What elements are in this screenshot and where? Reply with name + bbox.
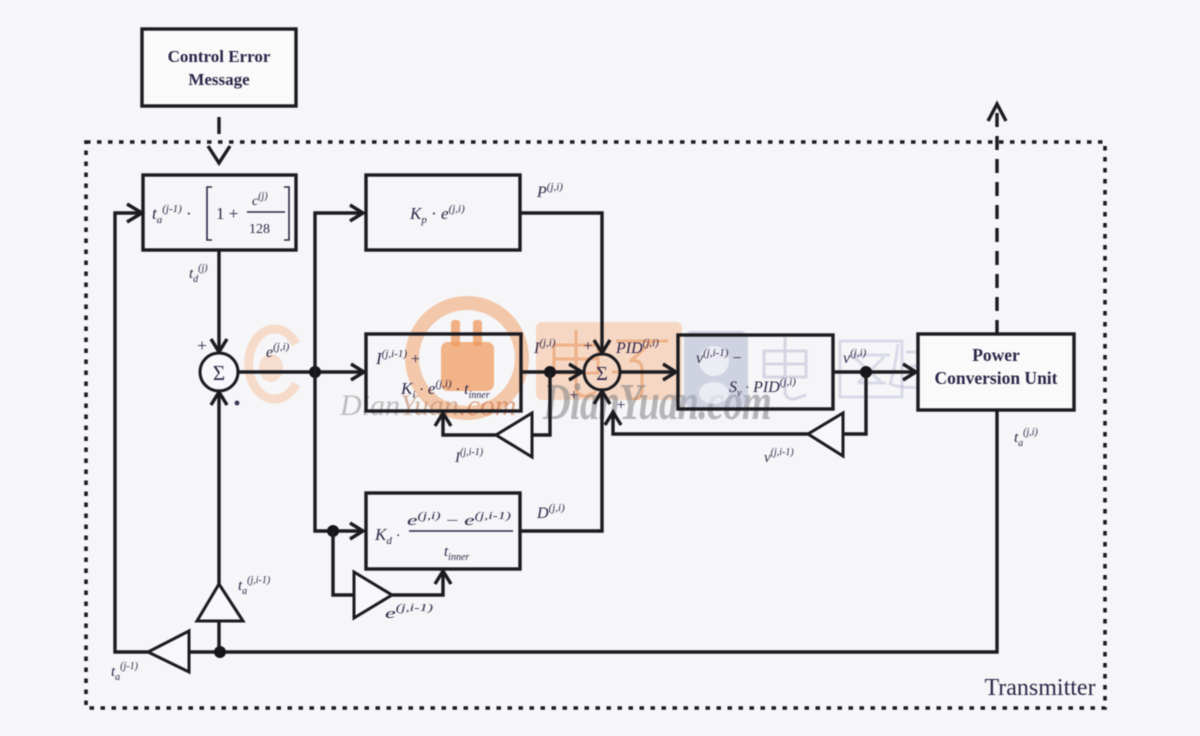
wire branch up to Kp block: [315, 205, 363, 372]
svg-text:Σ: Σ: [596, 363, 608, 385]
junction node on e line: [309, 366, 321, 378]
block Ki integral: [366, 334, 521, 411]
wire v feedback through delay Z4: [605, 372, 866, 434]
watermark faint lavender glyphs: [764, 337, 806, 399]
delay triangle Z2: [496, 413, 532, 457]
wire I feedback through delay Z2: [435, 372, 550, 435]
svg-text:128: 128: [249, 222, 270, 237]
wire dashed arrow from Control Error Message into transmitter: [208, 117, 230, 163]
svg-text:Power: Power: [972, 345, 1020, 365]
wire S1 bottom input from delay Z1: [211, 392, 227, 584]
wire branch down to Kd block: [315, 372, 363, 539]
delay triangle Z4: [808, 413, 843, 456]
box Power Conversion Unit: [918, 334, 1074, 410]
wire dashed RF output arrow from PCU: [988, 104, 1006, 334]
box Control Error Message: [142, 29, 296, 106]
summer S2: [584, 354, 620, 390]
svg-text:Control Error: Control Error: [168, 47, 271, 66]
watermark big orange ring logo with plug: [412, 303, 522, 413]
svg-text:+: +: [616, 397, 625, 414]
watermark orange wash with glyphs behind sum2: [536, 322, 682, 400]
wire junction up into delay Z1: [217, 621, 220, 652]
block SV voltage update: [678, 335, 833, 409]
delay triangle Z1: [197, 584, 243, 621]
wire SV output to PCU: [833, 364, 916, 380]
junction node on v output: [860, 366, 872, 378]
summer S1: [200, 353, 238, 391]
transmitter dashed border: [86, 142, 1105, 708]
label minus dot at S1 bottom: [235, 401, 240, 406]
svg-text:Conversion Unit: Conversion Unit: [935, 368, 1058, 388]
wire F1 to summer S1: [211, 250, 227, 352]
block F1 update rule: [143, 175, 296, 250]
svg-text:1 +: 1 +: [216, 204, 238, 223]
junction node on Kd input: [327, 525, 339, 537]
svg-text:+: +: [197, 336, 207, 355]
svg-text:+: +: [583, 338, 592, 355]
junction node on return line: [214, 646, 226, 658]
wire Kd output to summer S2: [520, 391, 610, 531]
wire PCU output down and return line: [189, 410, 997, 652]
svg-text:Σ: Σ: [213, 361, 225, 385]
watermark lavender logo square in SV block: [684, 331, 748, 408]
block Kd derivative: [366, 493, 520, 569]
wire Z5 output up to block F1: [115, 204, 148, 652]
junction node on I output: [544, 366, 556, 378]
svg-text:Message: Message: [188, 70, 250, 89]
wire Kp output to summer S2: [520, 213, 610, 353]
delay triangle Z5: [148, 631, 189, 672]
block F1 formula: [152, 187, 289, 240]
wire S2 output to SV block: [620, 364, 676, 380]
watermark small orange ring logo: [249, 329, 296, 399]
wire I output to summer S2: [521, 364, 582, 380]
delay triangle Z3: [354, 572, 392, 618]
wire e feedback through delay Z3: [333, 531, 451, 595]
wire S1 output to I block: [238, 364, 364, 380]
block Kp proportional: [366, 175, 520, 250]
svg-text:Transmitter: Transmitter: [984, 675, 1095, 701]
svg-text:+: +: [569, 387, 578, 404]
